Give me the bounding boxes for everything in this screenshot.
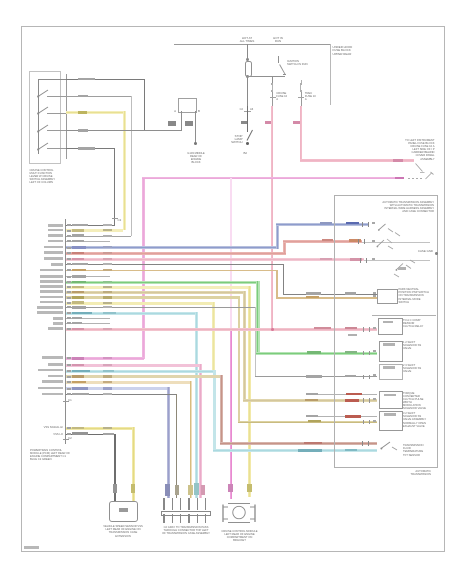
fuse F1 top dot — [246, 58, 249, 61]
PCM C1 tick — [63, 401, 69, 402]
internal wire row r7 continuation — [364, 259, 430, 262]
stop lamp switch blade — [244, 129, 256, 143]
row r16 GRY to trans — [66, 307, 256, 308]
C2 connector wire labels — [165, 484, 170, 496]
solenoid feed box — [378, 318, 403, 335]
fuse F3 label — [305, 92, 318, 102]
label HOT AT ALL TIMES — [234, 37, 260, 44]
switch contact E — [37, 141, 51, 151]
C2 connector label block — [162, 526, 210, 536]
pin label l2 — [42, 433, 63, 436]
row m6 PPL to C2 — [66, 387, 168, 390]
fuse F2 lead — [272, 76, 273, 83]
row r10 stub — [66, 276, 110, 277]
fuse F2 exit — [272, 92, 273, 107]
PCM connector face line — [65, 219, 66, 444]
bottom label — [398, 470, 431, 476]
TCC PWM solenoid box — [379, 391, 403, 410]
label underhood fuse block — [333, 46, 359, 56]
switch label block — [30, 169, 60, 185]
row r4 stub — [66, 241, 110, 242]
3-2 shift solenoid box — [379, 411, 403, 431]
stop lamp switch feed — [247, 106, 248, 132]
wire A label — [78, 78, 95, 81]
cruise servo wire labels — [228, 484, 233, 492]
PCM C2 tick — [63, 439, 69, 440]
row r9 ORN to PNP — [66, 270, 277, 272]
C2 connector comb upper teeth — [163, 498, 164, 510]
fuse block top rail — [174, 44, 330, 45]
3-2 shift solenoid label — [403, 412, 429, 428]
switch contact B — [37, 88, 51, 98]
fuse F3 body — [300, 85, 301, 91]
switch contact D — [37, 123, 51, 133]
fuse F1 feed wire — [247, 44, 248, 60]
row r12 YEL to cruise servo — [66, 286, 250, 289]
row r7 end ticks — [360, 258, 361, 263]
row r9a short wire — [306, 416, 377, 417]
off page arrow pink wire — [414, 162, 426, 175]
transmission label — [382, 201, 434, 214]
trans fluid temp sensor symbol — [378, 437, 402, 453]
row m1 PNK cruise engaged — [66, 357, 144, 360]
row r14 DK YEL to trans — [66, 296, 238, 299]
wire E connector tick — [112, 218, 118, 219]
wire PNK drop to cruise servo — [230, 178, 232, 329]
row r5 end ticks — [362, 222, 363, 227]
fuse F3 exit — [301, 92, 302, 107]
PCM pin labels middle group — [0, 0, 474, 1]
ignition switch label — [287, 60, 309, 66]
wire label RED — [241, 121, 247, 124]
row l1 YEL to VSS — [66, 427, 134, 430]
stop lamp switch node dot — [246, 142, 249, 145]
row r6 end ticks — [358, 239, 359, 244]
shift solenoid B box — [379, 364, 403, 380]
connector ticks main feed — [244, 111, 251, 112]
PRNDL text blob — [398, 267, 406, 270]
TCC release switch symbol — [375, 234, 401, 252]
wire D return from release box — [66, 130, 182, 131]
fuse F2 top dot — [271, 83, 273, 85]
fluid temp label — [403, 444, 428, 457]
branch wire to ignition switch — [247, 76, 285, 77]
switch row stubs — [47, 96, 66, 97]
switch contact C — [37, 105, 51, 115]
stop lamp switch sub label — [244, 152, 256, 155]
label left IP fuse block — [404, 139, 435, 161]
release left wire label — [168, 121, 176, 126]
wire PNK from fuse F3 down — [300, 106, 302, 160]
shift solenoid B label — [403, 364, 426, 374]
VSS wire labels — [113, 484, 118, 493]
ground label — [186, 152, 206, 165]
row m4 TAN to trans — [66, 375, 222, 378]
solenoid feed label — [403, 319, 425, 329]
label under pink row — [348, 334, 357, 336]
row r18 stub — [66, 318, 110, 319]
cruise servo body — [220, 498, 258, 526]
VSS inner label — [119, 508, 128, 512]
row r20 PNK ignition feed — [66, 328, 377, 331]
wire C YEL to PCM r2 — [66, 111, 124, 114]
row m5 ORN to C2 — [66, 381, 192, 384]
release box left tick — [164, 110, 176, 113]
row l2 PPL to VSS — [66, 434, 115, 435]
C2 connector lower teeth — [163, 514, 164, 523]
row r10 end ticks — [362, 441, 363, 446]
label HOT IN RUN — [266, 37, 290, 44]
switch top link — [38, 79, 66, 80]
fuse F3 tick — [298, 97, 304, 98]
cruise switch housing box — [29, 71, 61, 164]
release resistor box — [178, 98, 197, 113]
shift solenoid A label — [403, 341, 426, 351]
internal wire row r6 continuation — [362, 241, 430, 244]
ignition switch stub — [278, 56, 279, 63]
PNP switch label — [399, 288, 432, 304]
row r15 YEL to trans TCC enable — [66, 302, 214, 305]
row m2 PNK to C2 — [66, 364, 200, 367]
fuse block right edge — [330, 44, 331, 105]
fuse F3 lead — [301, 80, 302, 83]
row r3 GRY to switch — [66, 236, 131, 237]
row m3 LT BLU to trans — [66, 370, 216, 373]
VSS body — [109, 501, 138, 522]
TCC switch symbol — [376, 221, 402, 239]
pin label l1 — [34, 426, 63, 429]
wire E label — [78, 147, 95, 150]
inner partition line — [372, 315, 436, 316]
trans case junction — [435, 252, 438, 255]
fuse F2 body — [272, 85, 273, 91]
fuse F2 bottom dot — [271, 90, 273, 92]
PCM cavity numbers — [0, 0, 474, 1]
row r19 stub — [66, 323, 110, 324]
VSS label block — [103, 525, 143, 538]
wire label PNK F3 — [293, 121, 300, 124]
switch connector line — [66, 74, 67, 159]
wire A set/coast to release box — [66, 79, 145, 80]
ground dot G103 — [194, 142, 197, 145]
row r11 LT GRN to trans solenoid — [66, 281, 258, 284]
release box right tick — [198, 110, 206, 113]
release box right lead — [195, 111, 196, 143]
wire D label — [78, 129, 88, 131]
off page arrow magenta wire — [424, 171, 434, 181]
row m7 BLK/WHT to C2 — [66, 394, 177, 395]
fuse F3 bottom dot — [300, 90, 302, 92]
wire PNK horizontal to left IP fuse block — [300, 159, 415, 161]
PNP switch box — [377, 289, 398, 304]
row r2 YEL to switch — [66, 229, 123, 232]
row r7 PNK to trans direct — [66, 258, 364, 261]
wire B to PCM r3 — [66, 96, 131, 97]
transmission cavity letters — [0, 0, 474, 1]
wire label PNK F2 — [265, 121, 272, 124]
wire B label — [78, 95, 88, 97]
wire PNK from fuse F2 down to solenoid feed — [271, 106, 273, 330]
C2 connector crossbar — [161, 511, 211, 517]
row r5 DK BLU TCC to trans — [66, 246, 279, 249]
connector tick pairs on solenoid rows — [0, 0, 474, 1]
release right wire label — [185, 121, 193, 126]
row r6 RED TCC release to trans — [66, 252, 286, 255]
PCM label block — [30, 449, 70, 462]
row r8a short wire — [306, 394, 377, 395]
wire E BLK/WHT to PCM r1 — [66, 148, 115, 149]
fuse F3 top dot — [300, 83, 302, 85]
ignition switch blade — [277, 63, 288, 77]
footer figure number — [24, 546, 39, 548]
dashed continuation — [408, 178, 424, 179]
PRNDL switch symbol — [393, 258, 421, 278]
wire label PNK right — [393, 159, 403, 162]
wire PNK cruise engage: PCM row up and across — [142, 177, 144, 359]
fuse F1 bottom dot — [246, 75, 249, 78]
node below fuse F1 — [247, 78, 248, 107]
fuse F2 label — [276, 92, 289, 102]
row r17 LT BLU to C2 connector — [66, 312, 196, 315]
row r13 TAN to trans — [66, 291, 245, 294]
shift solenoid A box — [379, 341, 403, 363]
fuse F1 body — [245, 61, 252, 77]
PCM pin labels upper group — [0, 0, 474, 1]
row r8 BLK/WHT to PNP — [66, 264, 284, 265]
row r1 BLK/WHT to switch — [66, 225, 115, 226]
ignition switch contact tick — [283, 74, 286, 75]
wire label PNK — [395, 177, 404, 180]
switch common bar — [38, 79, 39, 154]
stop lamp switch label — [227, 135, 243, 145]
cruise servo label block — [221, 530, 258, 543]
release box left lead — [181, 111, 182, 131]
wire C label YEL — [78, 111, 87, 113]
fuse F2 tick — [270, 97, 276, 98]
transmission assembly box — [334, 195, 438, 468]
TCC PWM solenoid label — [403, 392, 429, 411]
